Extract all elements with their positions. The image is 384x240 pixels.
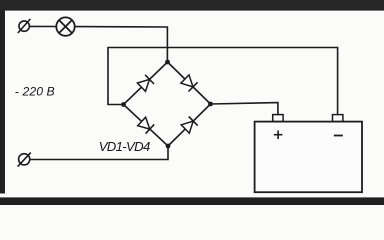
svg-text:- 220 В: - 220 В [15, 85, 55, 99]
wire: bridge right vertex to battery plus [211, 103, 278, 115]
terminal X2 (bottom AC input) [18, 153, 31, 167]
bridge arm: bottom vertex to right vertex [168, 104, 211, 146]
battery GB (accumulator) [255, 115, 362, 193]
wire: terminal X1 to lamp [29, 25, 56, 27]
bridge arm: top vertex to left vertex [124, 62, 168, 105]
bridge arm: top vertex to right vertex [168, 62, 211, 104]
bridge arm: left vertex to bottom vertex [124, 105, 169, 147]
diode VD4 (bottom-right arm) [181, 117, 198, 134]
node: bridge left vertex junction [121, 102, 126, 107]
wire: lamp to bridge top vertex [75, 27, 168, 62]
terminal X1 (top AC input) [18, 19, 31, 33]
wire: bridge bottom vertex to terminal X2 [30, 146, 168, 160]
battery minus terminal mark [334, 135, 343, 137]
node: bridge top vertex junction [165, 60, 170, 65]
svg-text:VD1-VD4: VD1-VD4 [99, 139, 150, 154]
diode VD2 (top-right arm) [181, 75, 198, 92]
lamp HL (ballast) [56, 17, 74, 35]
diode VD3 (left-bottom arm) [138, 117, 155, 134]
node: bridge right vertex junction [208, 102, 213, 107]
wire: bridge left vertex loop to battery minus [108, 48, 338, 115]
diode VD1 (left-top arm) [137, 75, 154, 92]
node: bridge bottom vertex junction [166, 144, 171, 149]
battery plus terminal mark [274, 130, 283, 139]
